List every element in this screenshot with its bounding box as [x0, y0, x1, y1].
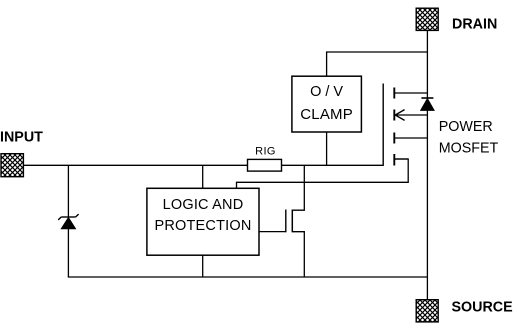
INPUT pad — [1, 154, 23, 177]
wire: logic input lead — [202, 165, 204, 188]
body diode on drain line — [421, 98, 434, 110]
DRAIN pad — [416, 8, 438, 30]
power MOSFET channel bar 3 (source) — [393, 133, 395, 144]
svg-text:RIG: RIG — [255, 145, 276, 157]
power MOSFET channel bar 1 (drain) — [393, 88, 395, 99]
power MOSFET channel bar 2 (body, arrow) — [393, 110, 395, 121]
wire: zener branch lower — [67, 229, 69, 277]
wire: input pad to resistor RIG — [23, 164, 247, 166]
wire: logic ground lead — [202, 255, 204, 277]
svg-text:DRAIN: DRAIN — [452, 17, 497, 33]
wire: resistor RIG to power MOSFET gate — [282, 164, 384, 166]
O/V CLAMP box — [292, 76, 362, 132]
svg-text:POWER: POWER — [439, 119, 493, 135]
svg-text:LOGIC AND: LOGIC AND — [163, 197, 244, 213]
power MOSFET gate line — [382, 84, 384, 166]
svg-text:O / V: O / V — [310, 84, 343, 100]
transistor Q1 (pull-down MOSFET) — [286, 165, 305, 277]
svg-text:PROTECTION: PROTECTION — [154, 218, 251, 234]
LOGIC AND PROTECTION box — [147, 188, 259, 255]
wire: logic output to Q1 gate — [259, 231, 286, 233]
svg-text:INPUT: INPUT — [0, 130, 43, 146]
bottom source wire — [68, 276, 428, 278]
svg-text:MOSFET: MOSFET — [439, 141, 499, 157]
wire: clamp bottom to gate node — [326, 132, 328, 165]
wire: channel bar 4 lead — [394, 158, 408, 160]
wire: clamp top to drain — [327, 52, 428, 76]
svg-text:CLAMP: CLAMP — [300, 106, 353, 123]
SOURCE pad — [416, 300, 438, 322]
wire: channel bar 1 lead — [394, 92, 427, 94]
wire: zener branch upper — [67, 165, 69, 217]
svg-text:SOURCE: SOURCE — [452, 300, 513, 316]
power MOSFET channel bar 4 (sense) — [393, 154, 395, 166]
zener diode — [58, 214, 78, 229]
wire: channel bar 3 lead — [394, 137, 427, 139]
wire: logic gate-drive to power MOSFET source segment — [237, 159, 409, 188]
resistor RIG — [248, 159, 282, 171]
wire: body lead with arrow — [395, 110, 427, 121]
POWER MOSFET label — [439, 119, 499, 157]
wire: drain pad to source pad main vertical — [426, 30, 428, 299]
